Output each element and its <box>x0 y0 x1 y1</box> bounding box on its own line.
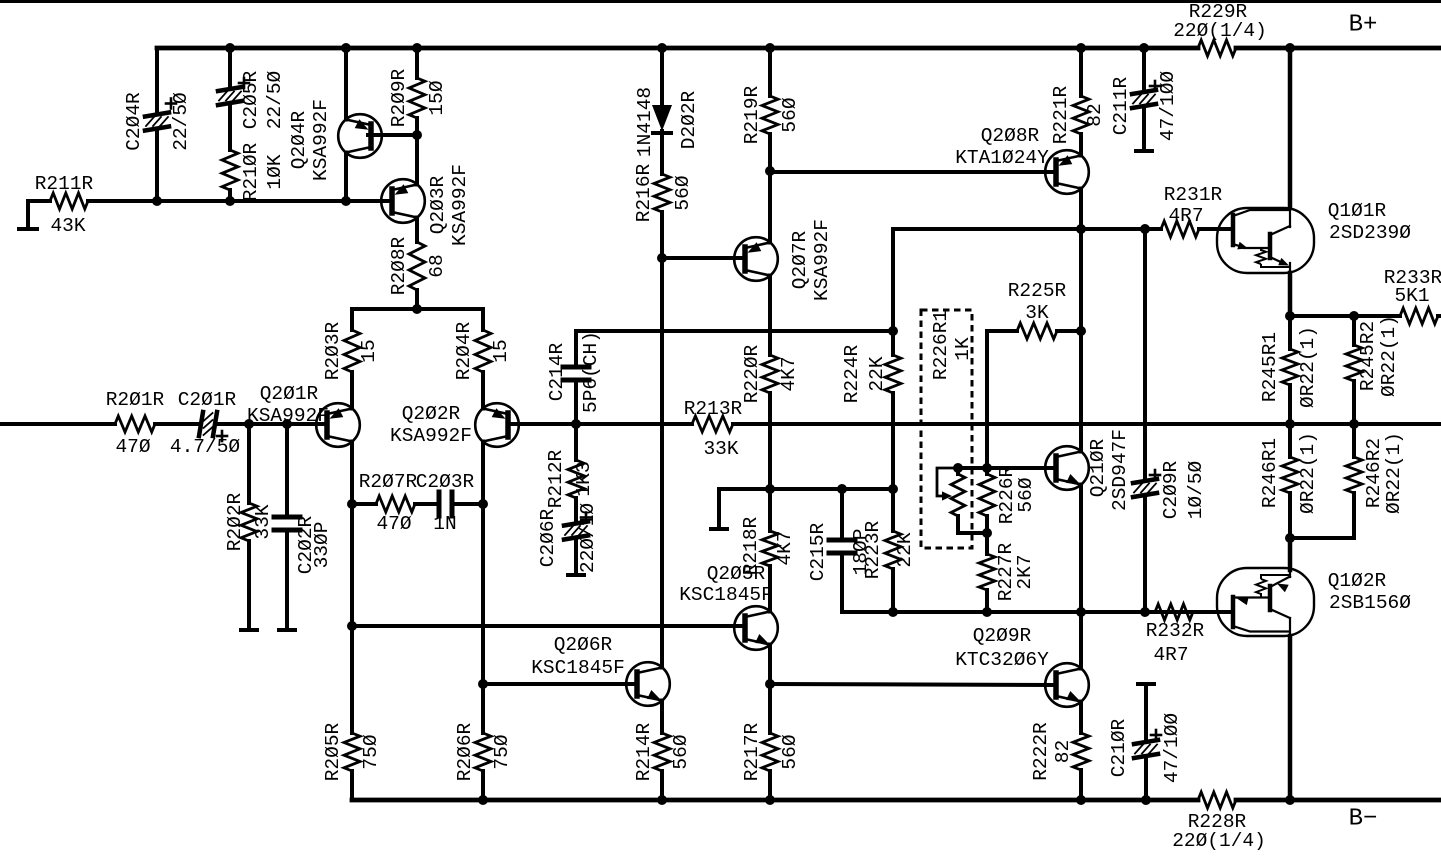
svg-text:43K: 43K <box>50 215 85 237</box>
resistor R221R <box>1050 48 1106 156</box>
resistor R246R1 <box>1259 424 1319 538</box>
capacitor C206R <box>537 498 599 574</box>
svg-text:R2Ø7R: R2Ø7R <box>359 471 418 493</box>
svg-text:C2Ø3R: C2Ø3R <box>416 471 475 493</box>
terminal C210R top <box>1138 682 1154 686</box>
svg-text:R2Ø4R: R2Ø4R <box>453 321 475 380</box>
terminal R211R input <box>19 201 37 229</box>
wire Q201R collector down <box>350 442 354 505</box>
svg-text:4R7: 4R7 <box>1168 205 1203 227</box>
svg-text:1N4148: 1N4148 <box>634 87 656 157</box>
wire trimmer top to R226R top <box>958 466 987 470</box>
transistor Q205R (KSC1845F) <box>679 563 778 650</box>
svg-text:C211R: C211R <box>1110 76 1132 135</box>
resistor R223R <box>862 489 916 612</box>
capacitor C215R <box>807 489 872 612</box>
junction (483,684) <box>478 679 488 689</box>
wire Q202R collector down <box>481 442 485 505</box>
wire Q204R collector to R210R node <box>344 153 348 202</box>
junction (417,309) <box>412 304 422 314</box>
wire B+ to Q101R collector <box>1288 48 1293 208</box>
transistor Q101R (2SD2390 darlington) <box>1217 200 1411 275</box>
svg-text:C215R: C215R <box>807 522 829 581</box>
capacitor C214R <box>546 331 602 424</box>
svg-text:R226R1: R226R1 <box>930 310 952 380</box>
trimmer R226R1 <box>930 310 974 533</box>
junction (483,800) <box>478 795 488 805</box>
svg-text:15Ø: 15Ø <box>426 80 448 115</box>
transistor Q203R (KSA992F) <box>381 164 471 246</box>
wire Q201R collector to Q205R base node <box>350 504 354 626</box>
junction (1081,331) <box>1076 326 1086 336</box>
svg-text:Q2Ø3R: Q2Ø3R <box>427 175 449 234</box>
svg-text:1K: 1K <box>952 337 974 361</box>
svg-text:KSA992F: KSA992F <box>310 99 332 181</box>
svg-text:56Ø: 56Ø <box>779 734 801 769</box>
wire Q205R emitter down <box>768 645 772 685</box>
svg-text:R222R: R222R <box>1030 722 1052 781</box>
svg-text:56Ø: 56Ø <box>670 734 692 769</box>
wire output top node <box>1290 314 1354 318</box>
wire Q203R emitter to node <box>415 135 419 185</box>
resistor R206R <box>454 684 513 800</box>
svg-text:R221R: R221R <box>1050 85 1072 144</box>
wire Q101R emitter down <box>1288 273 1293 316</box>
resistor R224R <box>841 331 901 489</box>
resistor R225R <box>987 280 1081 339</box>
capacitor C202R <box>274 424 333 629</box>
wire Q207R collector to R220R <box>768 276 772 356</box>
svg-text:15: 15 <box>490 339 512 362</box>
svg-text:C2Ø1R: C2Ø1R <box>178 389 237 411</box>
wire tail node to R203R/R204R <box>352 307 483 311</box>
svg-text:22Ø(1/4): 22Ø(1/4) <box>1172 830 1266 852</box>
resistor R227R <box>979 533 1036 612</box>
wire B- rail right section <box>1236 798 1441 803</box>
wire Q208R collector down <box>1079 189 1083 230</box>
svg-text:C2Ø5R: C2Ø5R <box>240 70 262 129</box>
resistor R210R <box>222 142 286 201</box>
svg-text:KTC32Ø6Y: KTC32Ø6Y <box>955 649 1049 671</box>
junction (842,489) <box>837 484 847 494</box>
wire C214R to R224R top / VAS node <box>576 329 893 333</box>
wire Q201R emitter to R203R <box>350 372 354 409</box>
svg-text:5P6(CH): 5P6(CH) <box>580 331 602 413</box>
capacitor C209R <box>1133 460 1207 612</box>
terminal C206R bottom <box>568 573 584 577</box>
wire driver bias rail <box>842 610 1233 614</box>
svg-text:C2Ø4R: C2Ø4R <box>123 92 145 151</box>
svg-text:4R7: 4R7 <box>1153 644 1188 666</box>
resistor R246R2 <box>1346 424 1405 538</box>
wire to R233R <box>1354 314 1400 318</box>
resistor R231R <box>1146 184 1233 237</box>
wire VAS node to C209R <box>1143 229 1147 479</box>
junction (893,612) <box>888 607 898 617</box>
wire audio input <box>0 422 115 426</box>
junction (1354,316) <box>1349 311 1359 321</box>
svg-text:2SD947F: 2SD947F <box>1109 429 1131 511</box>
svg-text:KSC1845F: KSC1845F <box>679 584 773 606</box>
junction (662,258) <box>657 253 667 263</box>
svg-text:2SB156Ø: 2SB156Ø <box>1329 592 1411 614</box>
junction (1081,612) <box>1076 607 1086 617</box>
svg-text:R21ØR: R21ØR <box>240 142 262 201</box>
wire R216R node to Q206R collector <box>660 258 664 668</box>
resistor R222R <box>1030 702 1089 801</box>
svg-text:C214R: C214R <box>546 342 568 401</box>
resistor R213R <box>576 398 1441 460</box>
svg-text:5K1: 5K1 <box>1394 285 1429 307</box>
wire R246 bottom node <box>1290 536 1354 540</box>
svg-text:47Ø: 47Ø <box>115 436 150 458</box>
svg-text:B+: B+ <box>1349 12 1378 39</box>
junction (662,48) <box>657 43 667 53</box>
wire Q201R base lead <box>316 422 326 426</box>
svg-text:R224R: R224R <box>841 344 863 403</box>
resistor R209R <box>388 48 448 135</box>
svg-text:1ØK: 1ØK <box>264 154 286 189</box>
wire Q202R collector to Q206R base node <box>481 504 485 684</box>
svg-text:KSA992F: KSA992F <box>811 219 833 301</box>
svg-text:KSA992F: KSA992F <box>390 425 472 447</box>
terminal C211R bottom <box>1136 149 1152 153</box>
wire Q208R collector to Q210R collector <box>1079 229 1083 452</box>
resistor R229R <box>1173 1 1267 56</box>
svg-text:56Ø: 56Ø <box>779 97 801 132</box>
svg-text:47/1ØØ: 47/1ØØ <box>1161 713 1183 784</box>
dashed box R226R1 trimmer <box>921 310 972 548</box>
wire Q205R emitter to Q209R base <box>770 684 1055 685</box>
resistor R208R <box>388 218 448 310</box>
junction (1290,424) <box>1285 419 1295 429</box>
wire Q209R collector up <box>1079 612 1083 669</box>
svg-text:C2Ø6R: C2Ø6R <box>537 508 559 567</box>
transistor Q201R (KSA992F) <box>247 383 360 447</box>
svg-text:KSA992F: KSA992F <box>449 164 471 246</box>
svg-text:Q2Ø4R: Q2Ø4R <box>288 110 310 169</box>
svg-text:R2Ø8R: R2Ø8R <box>388 236 410 295</box>
wire B+ rail right section <box>1236 46 1441 51</box>
junction (987,533) <box>982 528 992 538</box>
junction (483,504) <box>478 499 488 509</box>
svg-text:ØR22(1): ØR22(1) <box>1378 315 1400 397</box>
resistor R232R <box>1146 604 1233 666</box>
junction (1290,316) <box>1285 311 1295 321</box>
junction (770,800) <box>765 795 775 805</box>
transistor Q209R (KTC3206Y) <box>955 625 1089 707</box>
svg-text:22K: 22K <box>894 532 916 567</box>
svg-text:4K7: 4K7 <box>774 530 796 565</box>
svg-text:2K7: 2K7 <box>1014 554 1036 589</box>
svg-text:33ØP: 33ØP <box>311 522 333 569</box>
junction (987,468) <box>982 463 992 473</box>
junction (249,424) <box>244 419 254 429</box>
svg-text:KTA1Ø24Y: KTA1Ø24Y <box>955 147 1049 169</box>
terminal R202R bottom <box>241 628 257 632</box>
transistor Q206R (KSC1845F) <box>531 634 670 706</box>
junction (230,48) <box>225 43 235 53</box>
wire Q201R collector to Q205R base <box>352 624 744 628</box>
wire Q202R emitter to R204R <box>481 372 485 409</box>
svg-text:Q2Ø1R: Q2Ø1R <box>260 383 319 405</box>
svg-text:22Ø(1/4): 22Ø(1/4) <box>1173 20 1267 42</box>
svg-text:82: 82 <box>1052 740 1074 763</box>
svg-text:47/1ØØ: 47/1ØØ <box>1157 71 1179 142</box>
svg-text:33K: 33K <box>252 504 274 539</box>
svg-text:B−: B− <box>1349 806 1378 833</box>
svg-text:82: 82 <box>1084 103 1106 126</box>
svg-text:75Ø: 75Ø <box>491 734 513 769</box>
svg-text:56Ø: 56Ø <box>1015 477 1037 512</box>
svg-text:1K3: 1K3 <box>573 461 595 496</box>
svg-text:R2Ø2R: R2Ø2R <box>224 492 246 551</box>
junction (352,626) <box>347 621 357 631</box>
svg-text:R22ØR: R22ØR <box>741 344 763 403</box>
resistor R202R <box>224 424 274 629</box>
svg-text:22/5Ø: 22/5Ø <box>264 70 286 129</box>
svg-text:ØR22(1): ØR22(1) <box>1297 326 1319 408</box>
resistor R217R <box>741 684 801 800</box>
resistor R216R <box>633 133 694 258</box>
svg-text:KSC1845F: KSC1845F <box>531 657 625 679</box>
svg-text:56Ø: 56Ø <box>672 175 694 210</box>
svg-text:R246R2: R246R2 <box>1363 438 1385 508</box>
svg-text:4K7: 4K7 <box>778 356 800 391</box>
terminal C202R bottom <box>279 628 295 632</box>
wire Q210R base <box>987 466 1055 470</box>
resistor R201R <box>106 389 194 458</box>
svg-text:C21ØR: C21ØR <box>1108 718 1130 777</box>
junction (1290,538) <box>1285 533 1295 543</box>
resistor R211R <box>28 173 157 237</box>
svg-text:R213R: R213R <box>684 398 743 420</box>
svg-text:R211R: R211R <box>35 173 94 195</box>
svg-text:R231R: R231R <box>1164 184 1223 206</box>
svg-text:R232R: R232R <box>1146 620 1205 642</box>
svg-text:R218R: R218R <box>740 516 762 575</box>
svg-text:R2Ø3R: R2Ø3R <box>322 321 344 380</box>
junction (1146,800) <box>1141 795 1151 805</box>
resistor R226R <box>979 465 1037 533</box>
capacitor C205R <box>218 48 286 148</box>
resistor R228R <box>1172 792 1266 852</box>
junction (417,135) <box>412 130 422 140</box>
resistor R204R <box>453 309 512 403</box>
svg-text:R219R: R219R <box>741 85 763 144</box>
resistor R214R <box>633 701 692 801</box>
capacitor C210R <box>1108 684 1183 800</box>
junction (1145,229) <box>1140 224 1150 234</box>
svg-text:R245R1: R245R1 <box>1259 332 1281 402</box>
svg-text:R245R2: R245R2 <box>1357 321 1379 391</box>
svg-text:C2Ø9R: C2Ø9R <box>1160 460 1182 519</box>
svg-text:ØR22(1): ØR22(1) <box>1383 432 1405 514</box>
svg-text:2SD239Ø: 2SD239Ø <box>1329 222 1411 244</box>
svg-text:15: 15 <box>358 339 380 362</box>
junction (1354,424) <box>1349 419 1359 429</box>
transistor Q207R (KSA992F) <box>734 219 833 301</box>
diode D202R (1N4148) <box>634 87 700 174</box>
wire Q202R base to feedback node <box>508 422 576 426</box>
junction (346,48) <box>341 43 351 53</box>
wire B+ rail left section <box>157 46 1198 51</box>
svg-text:R2Ø5R: R2Ø5R <box>322 722 344 781</box>
capacitor C203R <box>416 471 483 535</box>
junction (230,201) <box>225 196 235 206</box>
wire VAS node down to R224R <box>891 229 895 331</box>
svg-text:18ØP: 18ØP <box>850 529 872 576</box>
capacitor C201R <box>170 389 316 458</box>
junction (987,612) <box>982 607 992 617</box>
wire B+ to D202R anode <box>660 48 664 104</box>
junction (1081,800) <box>1076 795 1086 805</box>
svg-text:R212R: R212R <box>545 449 567 508</box>
wire trimmer bottom to R227R top <box>958 531 987 535</box>
wire VAS output node <box>893 227 1146 231</box>
svg-text:22/5Ø: 22/5Ø <box>170 92 192 151</box>
resistor R218R <box>740 489 796 612</box>
junction (352,504) <box>347 499 357 509</box>
wire D202R/R216R node to Q207R base <box>662 256 745 260</box>
svg-text:Q2Ø8R: Q2Ø8R <box>981 125 1040 147</box>
transistor Q102R (2SB1560 darlington) <box>1217 565 1411 636</box>
svg-text:68: 68 <box>426 254 448 277</box>
capacitor C204R <box>123 48 192 201</box>
junction (893,331) <box>888 326 898 336</box>
svg-text:R2Ø1R: R2Ø1R <box>106 389 165 411</box>
junction (958,468) <box>953 463 963 473</box>
junction (576,424) <box>571 419 581 429</box>
resistor R205R <box>322 626 382 800</box>
wire R246R2 bottom <box>1352 493 1356 538</box>
wire Q210R emitter down <box>1079 485 1083 613</box>
svg-text:R2Ø9R: R2Ø9R <box>388 68 410 127</box>
svg-text:1N: 1N <box>433 513 456 535</box>
junction (662,800) <box>657 795 667 805</box>
wire node R211R/R210R to Q203R base <box>157 199 391 203</box>
junction (893,489) <box>888 484 898 494</box>
resistor R220R <box>741 276 800 490</box>
svg-text:47Ø: 47Ø <box>376 513 411 535</box>
svg-text:R225R: R225R <box>1008 280 1067 302</box>
svg-text:Q1Ø2R: Q1Ø2R <box>1328 570 1387 592</box>
svg-text:Q1Ø1R: Q1Ø1R <box>1328 200 1387 222</box>
wire Q206R emitter down <box>660 701 664 734</box>
terminal ground stub <box>711 489 727 529</box>
resistor R203R <box>322 309 380 403</box>
svg-text:3K: 3K <box>1025 302 1049 324</box>
resistor R207R <box>352 471 432 535</box>
junction (770,489) <box>765 484 775 494</box>
junction (1290,48) <box>1285 43 1295 53</box>
junction (417,48) <box>412 43 422 53</box>
svg-text:R216R: R216R <box>633 163 655 222</box>
svg-text:R214R: R214R <box>633 722 655 781</box>
junction (1081,48) <box>1076 43 1086 53</box>
wire R218R/C215R/R223R node <box>719 487 893 491</box>
svg-text:1Ø/5Ø: 1Ø/5Ø <box>1185 460 1207 519</box>
svg-text:75Ø: 75Ø <box>360 734 382 769</box>
svg-text:Q21ØR: Q21ØR <box>1087 438 1109 497</box>
wire R225R left leg down to Q210R base node <box>985 331 989 468</box>
svg-text:R2Ø6R: R2Ø6R <box>454 722 476 781</box>
svg-text:D2Ø2R: D2Ø2R <box>678 90 700 149</box>
resistor R245R1 <box>1259 316 1319 424</box>
svg-text:ØR22(1): ØR22(1) <box>1297 432 1319 514</box>
svg-text:Q2Ø2R: Q2Ø2R <box>402 403 461 425</box>
svg-text:Q2Ø9R: Q2Ø9R <box>973 625 1032 647</box>
resistor R219R <box>741 48 801 171</box>
junction (770,171) <box>765 166 775 176</box>
transistor Q202R (KSA992F) <box>390 403 519 447</box>
svg-text:Q2Ø6R: Q2Ø6R <box>554 634 613 656</box>
svg-text:22Ø/1Ø: 22Ø/1Ø <box>577 503 599 574</box>
junction (346,201) <box>341 196 351 206</box>
capacitor C211R <box>1110 48 1179 150</box>
wire Q207R emitter node to Q208R base <box>770 170 1055 174</box>
transistor Q208R (KTA1024Y) <box>955 125 1089 194</box>
junction (1290,800) <box>1285 795 1295 805</box>
wire Q206R base <box>483 682 636 686</box>
junction (157,201) <box>152 196 162 206</box>
transistor Q210R (2SD947F) <box>1045 429 1131 511</box>
junction (770,684) <box>765 679 775 689</box>
wire B- rail left section <box>352 798 1198 803</box>
svg-text:33K: 33K <box>703 438 738 460</box>
junction (1081,229) <box>1076 224 1086 234</box>
svg-text:R217R: R217R <box>741 722 763 781</box>
frame top border <box>0 0 1441 3</box>
wire output node to Q102R emitter <box>1288 538 1293 570</box>
svg-text:R246R1: R246R1 <box>1259 438 1281 508</box>
resistor R212R <box>545 424 595 522</box>
resistor R245R2 <box>1346 315 1400 424</box>
wire Q204R emitter to B+ <box>344 48 348 120</box>
junction (1145,612) <box>1140 607 1150 617</box>
svg-text:Q2Ø7R: Q2Ø7R <box>789 230 811 289</box>
junction (1144,48) <box>1139 43 1149 53</box>
wire Q204R base to R209R/Q203R emitter node <box>368 133 417 137</box>
svg-text:22K: 22K <box>866 356 888 391</box>
junction (287,424) <box>282 419 292 429</box>
resistor R233R <box>1384 267 1441 324</box>
transistor Q204R (KSA992F) <box>288 99 382 181</box>
wire Q102R collector to B- <box>1288 636 1293 800</box>
junction (770,48) <box>765 43 775 53</box>
svg-text:4.7/5Ø: 4.7/5Ø <box>170 436 241 458</box>
wire Q207R emitter up <box>768 171 772 243</box>
